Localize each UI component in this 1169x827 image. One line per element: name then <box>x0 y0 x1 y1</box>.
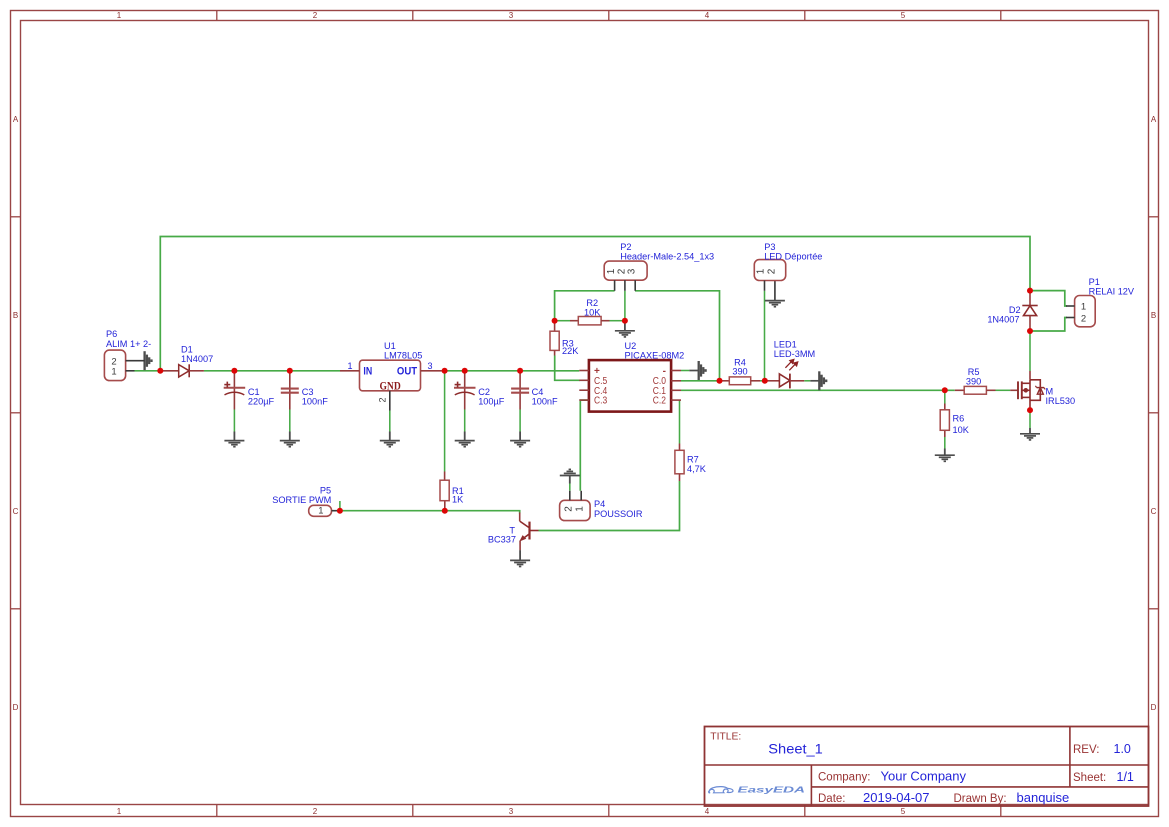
U1 pin 2 line (GND) <box>389 391 391 411</box>
svg-text:R7: R7 <box>687 455 699 465</box>
R4 value label 390 <box>732 367 747 377</box>
R7 reference label <box>687 455 699 465</box>
svg-text:PICAXE-08M2: PICAXE-08M2 <box>625 351 685 361</box>
wire U1 OUT to U2 plus pin (5V rail) <box>442 370 580 372</box>
svg-text:D: D <box>1151 703 1157 712</box>
ground at C3 <box>280 432 300 447</box>
P1 reference label <box>1089 277 1100 287</box>
junction node MOSFET source <box>1027 407 1033 413</box>
wire C1 lower lead to ground <box>233 410 235 432</box>
svg-text:5: 5 <box>901 807 906 816</box>
T reference label <box>509 526 515 536</box>
P6 value label ALIM 1+ 2- <box>106 339 151 349</box>
P4 reference label <box>594 499 605 509</box>
title block box <box>705 727 1149 807</box>
C4 value label 100nF <box>532 396 558 406</box>
wire D1 to U1 IN <box>204 370 340 372</box>
P1 pin lines <box>1066 306 1075 318</box>
junction node P6/D1 <box>157 368 163 374</box>
svg-text:EasyEDA: EasyEDA <box>738 786 806 795</box>
wire R2 left lead <box>555 320 570 322</box>
ruler row ticks right <box>1149 217 1159 609</box>
svg-text:banquise: banquise <box>1017 790 1070 805</box>
svg-text:Sheet:: Sheet: <box>1073 772 1106 784</box>
svg-text:RELAI 12V: RELAI 12V <box>1089 287 1135 297</box>
wire LED1 cathode to ground <box>804 380 810 382</box>
wire U2 minus pin to ground <box>681 370 689 372</box>
svg-text:3: 3 <box>509 11 514 20</box>
C4 reference label <box>532 387 544 397</box>
U2 pin name C.2 <box>653 396 666 407</box>
P1 pin number 1 <box>1081 302 1086 313</box>
svg-text:3: 3 <box>509 807 514 816</box>
P3 reference label <box>764 242 775 252</box>
svg-text:10K: 10K <box>953 425 970 435</box>
diode D2 (flyback) <box>1022 291 1037 331</box>
connector P3 body <box>754 260 785 281</box>
svg-text:P5: P5 <box>320 485 331 495</box>
junction node R2/R3/P2.1 <box>552 318 558 324</box>
svg-text:C.2: C.2 <box>653 396 666 407</box>
U2 reference label <box>625 341 637 351</box>
svg-text:Header-Male-2.54_1x3: Header-Male-2.54_1x3 <box>620 252 714 262</box>
title Sheet_1 <box>768 741 823 756</box>
svg-text:B: B <box>13 311 18 320</box>
svg-text:1: 1 <box>575 506 586 512</box>
svg-text:3: 3 <box>627 268 638 274</box>
M value label IRL530 <box>1046 396 1076 406</box>
svg-text:1N4007: 1N4007 <box>987 314 1019 324</box>
wire D2 bottom node to P1 pin2 <box>1030 318 1067 332</box>
svg-text:C: C <box>1151 507 1157 516</box>
svg-text:Sheet_1: Sheet_1 <box>768 741 823 756</box>
LED LED1 <box>765 360 804 389</box>
wire C3 lower lead to ground <box>289 410 291 432</box>
P5 reference label <box>320 485 331 495</box>
P3 pin number 2 <box>766 268 777 274</box>
U1 pin 1 line <box>340 370 360 372</box>
wire C4 lower lead to ground <box>519 410 521 432</box>
junction node R2/P2.2 ground <box>622 318 628 324</box>
ground at P6 pin2 (rotated right) <box>145 351 152 370</box>
wire gate node down to R6 <box>944 390 946 403</box>
P2 pin number 3 <box>627 268 638 274</box>
svg-text:C: C <box>13 507 19 516</box>
C3 reference label <box>302 387 314 397</box>
U2 left pin lines <box>579 371 589 401</box>
D1 reference label <box>181 345 193 355</box>
P2 pin number 1 <box>606 268 617 274</box>
C1 reference label <box>248 387 260 397</box>
connector P2 body <box>604 261 647 280</box>
wire R1 bottom to PWM node <box>444 500 446 510</box>
ruler row letters left <box>13 115 19 712</box>
svg-text:390: 390 <box>732 367 747 377</box>
wire transistor base to R7 <box>539 481 680 531</box>
P6 pin 1 line <box>126 370 135 372</box>
svg-text:C3: C3 <box>302 387 314 397</box>
svg-text:P2: P2 <box>620 242 631 252</box>
junction node C2 <box>462 368 468 374</box>
wire R3 bottom to U2 C.5 <box>555 356 580 381</box>
wire P4 pin2 to ground <box>569 484 571 491</box>
junction node R4/LED1/P3.1 <box>762 378 768 384</box>
U1 pin 3 line <box>421 370 442 372</box>
LED1 value label LED-3MM <box>774 349 815 359</box>
D2 value label 1N4007 <box>987 314 1019 324</box>
P1 value label RELAI 12V <box>1089 287 1135 297</box>
svg-text:R6: R6 <box>953 414 965 424</box>
R3 value label 22K <box>562 346 579 356</box>
U1 pin name OUT <box>397 365 417 377</box>
svg-text:A: A <box>13 115 19 124</box>
IC U2 body <box>589 360 671 412</box>
P2 pin lines <box>615 280 636 291</box>
wire P2 pin2 down to ground node <box>624 291 626 321</box>
regulator U1 body <box>360 360 421 391</box>
ground at P2 pin2 <box>615 321 635 337</box>
svg-text:U1: U1 <box>384 341 396 351</box>
P2 pin number 2 <box>616 268 627 274</box>
ground at transistor emitter <box>510 550 530 566</box>
date value 2019-04-07 <box>863 790 930 805</box>
REV: label <box>1073 744 1099 756</box>
wire P3 pin1 down to LED node <box>764 291 766 381</box>
P2 value label Header-Male-2.54_1x3 <box>620 252 714 262</box>
svg-text:P3: P3 <box>764 242 775 252</box>
wire R2 right lead <box>610 320 625 322</box>
wire U2 C.1 to R5/R6 node (gate line) <box>681 389 955 391</box>
svg-text:1: 1 <box>1081 302 1086 313</box>
connector P1 body <box>1075 296 1096 327</box>
P4 pin lines <box>570 491 581 501</box>
resistor R4 <box>720 377 761 385</box>
resistor R1 <box>440 472 449 501</box>
junction node C3 <box>287 368 293 374</box>
wire P2 pin3 down to U2 C.0 node <box>635 291 720 381</box>
wire 5V rail down to R1 <box>444 371 446 472</box>
wire U2 C.2 down to R7 <box>679 400 681 443</box>
svg-text:IRL530: IRL530 <box>1046 396 1076 406</box>
drawn by value banquise <box>1017 790 1070 805</box>
U1 pin number 1 <box>347 361 352 371</box>
wire U1 GND pin to ground <box>389 411 391 432</box>
R7 value label 4,7K <box>687 464 707 474</box>
ground at P3 pin2 <box>765 281 785 307</box>
svg-text:OUT: OUT <box>397 365 417 377</box>
capacitor C3 <box>281 371 299 410</box>
P6 pin number 2 <box>111 356 116 367</box>
wire top rail from P6 node to D2 node <box>160 237 1030 371</box>
junction node P5 / PWM <box>337 508 343 514</box>
svg-text:Drawn By:: Drawn By: <box>954 793 1007 805</box>
svg-text:REV:: REV: <box>1073 744 1099 756</box>
svg-text:Date:: Date: <box>818 793 846 805</box>
svg-text:U2: U2 <box>625 341 637 351</box>
svg-text:ALIM 1+ 2-: ALIM 1+ 2- <box>106 339 151 349</box>
resistor R6 <box>940 404 949 431</box>
ground at LED1 cathode (rotated right) <box>810 371 826 390</box>
svg-text:BC337: BC337 <box>488 534 516 544</box>
R2 reference label <box>586 298 598 308</box>
ground at C1 <box>224 432 244 447</box>
ground above P4 pin2 (inverted) <box>560 469 580 483</box>
svg-text:Your Company: Your Company <box>881 769 967 784</box>
U2 value label PICAXE-08M2 <box>625 351 685 361</box>
svg-text:2: 2 <box>378 397 388 402</box>
resistor R3 <box>550 321 559 356</box>
svg-text:GND: GND <box>379 380 400 392</box>
svg-text:R5: R5 <box>968 367 980 377</box>
U1 pin name GND <box>379 380 400 392</box>
wire P2 pin1 to R2/R3 node <box>555 291 615 321</box>
ground at C4 <box>510 432 530 447</box>
svg-text:1.0: 1.0 <box>1114 742 1131 756</box>
svg-text:2: 2 <box>563 506 574 512</box>
R1 value label 1K <box>452 495 464 505</box>
svg-text:Company:: Company: <box>818 772 870 784</box>
junction node C4 <box>517 368 523 374</box>
capacitor C2 (polarized) <box>454 371 476 410</box>
svg-text:3: 3 <box>427 361 432 371</box>
resistor R2 <box>570 317 610 325</box>
P1 pin number 2 <box>1081 314 1086 325</box>
U1 pin number 3 <box>427 361 432 371</box>
svg-text:B: B <box>1151 311 1156 320</box>
svg-text:1: 1 <box>318 505 323 516</box>
U2 pin name C.5 <box>594 376 608 387</box>
P5 pin number 1 <box>318 505 323 516</box>
R4 reference label <box>734 358 746 368</box>
C2 value label 100uF <box>478 396 505 406</box>
P6 reference label <box>106 329 117 339</box>
ground at MOSFET source <box>1020 428 1040 440</box>
U1 pin name IN <box>363 365 372 377</box>
svg-text:100nF: 100nF <box>532 396 558 406</box>
svg-text:10K: 10K <box>584 308 601 318</box>
P6 pin 2 line <box>126 360 145 362</box>
wire U2 C.0 to R4 <box>681 380 720 382</box>
U2 pin name C.1 <box>653 386 667 397</box>
connector P6 body <box>104 350 125 381</box>
svg-text:1: 1 <box>117 807 122 816</box>
junction node R5/R6 gate <box>942 387 948 393</box>
connector P5 body <box>309 505 332 516</box>
svg-text:C4: C4 <box>532 387 544 397</box>
Date: label <box>818 793 846 805</box>
P3 pin number 1 <box>756 268 767 274</box>
MOSFET M IRL530 <box>1010 371 1045 410</box>
ruler column numbers top <box>117 11 906 20</box>
ruler column ticks top <box>217 11 1001 21</box>
U2 pin name minus <box>663 366 666 377</box>
company value Your Company <box>881 769 967 784</box>
sheet value 1/1 <box>1117 770 1134 784</box>
svg-text:2: 2 <box>766 268 777 274</box>
ground at C2 <box>455 432 475 447</box>
R5 reference label <box>968 367 980 377</box>
D2 reference label <box>1009 305 1021 315</box>
ruler column numbers bottom <box>117 807 906 816</box>
wire stub above P5 node <box>339 501 341 511</box>
svg-text:4,7K: 4,7K <box>687 464 707 474</box>
svg-text:220µF: 220µF <box>248 396 275 406</box>
rev value 1.0 <box>1114 742 1131 756</box>
P3 value label LED Deportee <box>764 252 822 262</box>
junction node C.0/R4/P2.3 <box>717 378 723 384</box>
wire MOSFET source to ground <box>1029 410 1031 428</box>
M reference label <box>1046 387 1054 397</box>
P3 pin lines <box>764 281 766 291</box>
connector P4 body <box>560 500 591 520</box>
svg-text:IN: IN <box>363 365 372 377</box>
svg-text:R2: R2 <box>586 298 598 308</box>
U2 pin name C.4 <box>594 386 608 397</box>
svg-text:C1: C1 <box>248 387 260 397</box>
U1 value label LM78L05 <box>384 351 422 361</box>
svg-text:D: D <box>13 703 19 712</box>
P6 pin number 1 <box>111 366 116 377</box>
U2 pin name plus <box>594 366 600 377</box>
junction node C1 <box>231 368 237 374</box>
wire D2 bottom node to MOSFET drain <box>1029 331 1031 371</box>
P2 reference label <box>620 242 631 252</box>
svg-text:2: 2 <box>1081 314 1086 325</box>
EasyEDA logo <box>709 786 806 795</box>
Sheet: label <box>1073 772 1106 784</box>
svg-text:2: 2 <box>313 11 318 20</box>
svg-text:LED Déportée: LED Déportée <box>764 252 822 262</box>
T value label BC337 <box>488 534 516 544</box>
Drawn By: label <box>954 793 1007 805</box>
svg-text:LED-3MM: LED-3MM <box>774 349 815 359</box>
svg-text:1: 1 <box>111 366 116 377</box>
ground at R6 <box>935 449 955 462</box>
U2 right pin lines <box>671 371 681 401</box>
svg-text:C2: C2 <box>478 387 490 397</box>
D1 value label 1N4007 <box>181 354 213 364</box>
junction node R1 / PWM <box>442 508 448 514</box>
R5 value label 390 <box>966 377 981 387</box>
svg-text:1K: 1K <box>452 495 464 505</box>
svg-text:1/1: 1/1 <box>1117 770 1134 784</box>
svg-text:TITLE:: TITLE: <box>710 731 741 742</box>
svg-text:4: 4 <box>705 807 710 816</box>
LED1 reference label <box>774 340 797 350</box>
svg-text:C.3: C.3 <box>594 396 608 407</box>
svg-text:1: 1 <box>347 361 352 371</box>
svg-text:LM78L05: LM78L05 <box>384 351 422 361</box>
U1 reference label <box>384 341 396 351</box>
wire C2 lower lead to ground <box>464 410 466 432</box>
wire U2 C.3 down to P4 pin1 <box>580 400 589 491</box>
svg-text:LED1: LED1 <box>774 340 797 350</box>
svg-text:P4: P4 <box>594 499 605 509</box>
svg-text:D1: D1 <box>181 345 193 355</box>
junction node D2 top / P1.1 <box>1027 288 1033 294</box>
P4 pin number 2 <box>563 506 574 512</box>
C2 reference label <box>478 387 490 397</box>
U2 pin name C.3 <box>594 396 608 407</box>
svg-text:100µF: 100µF <box>478 396 505 406</box>
svg-text:M: M <box>1046 387 1054 397</box>
title block TITLE label <box>710 731 741 742</box>
ground at U2 minus pin (rotated right) <box>689 361 705 380</box>
svg-text:POUSSOIR: POUSSOIR <box>594 509 643 519</box>
junction node U1 OUT / R1 <box>442 368 448 374</box>
ruler column ticks bottom <box>217 805 1001 817</box>
ruler row letters right <box>1151 115 1157 712</box>
wire P5 to transistor collector row <box>338 511 520 514</box>
ground at U1 GND <box>380 432 400 447</box>
P4 pin number 1 <box>575 506 586 512</box>
R1 reference label <box>452 486 464 496</box>
svg-text:SORTIE PWM: SORTIE PWM <box>272 495 331 505</box>
P5 pin line <box>332 510 339 512</box>
wire D2 top node to P1 pin1 <box>1030 291 1067 306</box>
svg-text:A: A <box>1151 115 1157 124</box>
R3 reference label <box>562 339 574 349</box>
diode D1 <box>160 364 204 377</box>
svg-text:2019-04-07: 2019-04-07 <box>863 790 930 805</box>
transistor T BC337 <box>519 513 538 551</box>
C3 value label 100nF <box>302 396 328 406</box>
wire P6 pin1 to D1 <box>135 370 163 372</box>
svg-text:2: 2 <box>313 807 318 816</box>
P5 value label SORTIE PWM <box>272 495 331 505</box>
resistor R5 <box>955 386 996 394</box>
P4 value label POUSSOIR <box>594 509 643 519</box>
ruler row ticks left <box>11 217 21 609</box>
svg-text:390: 390 <box>966 377 981 387</box>
capacitor C1 (polarized) <box>224 371 246 410</box>
svg-text:4: 4 <box>705 11 710 20</box>
wire R6 bottom to ground <box>944 430 946 448</box>
C1 value label 220uF <box>248 396 275 406</box>
svg-text:1: 1 <box>756 268 767 274</box>
svg-text:5: 5 <box>901 11 906 20</box>
svg-text:P1: P1 <box>1089 277 1100 287</box>
R6 reference label <box>953 414 965 424</box>
Company: label <box>818 772 870 784</box>
wire R4 to LED node <box>760 380 765 382</box>
svg-text:1N4007: 1N4007 <box>181 354 213 364</box>
U1 pin number 2 <box>378 397 388 402</box>
svg-text:P6: P6 <box>106 329 117 339</box>
capacitor C4 <box>511 371 529 410</box>
resistor R7 <box>675 444 684 482</box>
R2 value label 10K <box>584 308 601 318</box>
svg-text:1: 1 <box>117 11 122 20</box>
R6 value label 10K <box>953 425 970 435</box>
wire R5 to MOSFET gate <box>996 389 1011 391</box>
junction node D2 bottom / P1.2 <box>1027 328 1033 334</box>
svg-text:22K: 22K <box>562 346 579 356</box>
U2 pin name C.0 <box>653 376 667 387</box>
svg-text:100nF: 100nF <box>302 396 328 406</box>
